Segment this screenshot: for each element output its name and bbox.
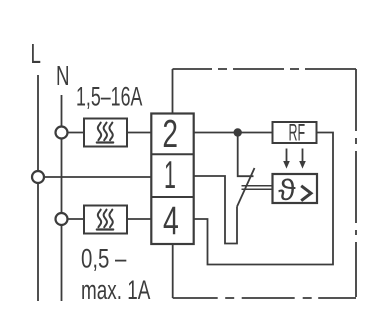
thermostat greater-than symbol [301,186,311,201]
enclosure dash-dot top edge [173,68,357,70]
node L label [31,38,41,68]
wire terminal 1 to switch pole [194,176,237,244]
RF module U1 box [273,122,317,143]
wire terminal 2 to RF [194,132,273,134]
wire N to load E1 [62,132,85,134]
enclosure dash-dot bottom edge [173,297,356,299]
switch blade [237,168,255,207]
wire L rail [37,75,39,301]
thermostat theta label [278,173,296,207]
terminal circle on N (top) [56,127,68,139]
svg-text:0,5 –: 0,5 – [81,244,127,274]
junction dot [234,128,242,136]
terminal 4 label [163,199,179,243]
terminal 1 label [164,153,176,196]
wire L to terminal 1 [38,176,151,178]
switch fixed contact from junction [238,133,254,177]
load E2 box [84,206,127,234]
node N label [56,60,70,90]
wire terminal 2 top stub to enclosure [172,69,174,114]
wire RF to terminal 4 (right loop) [194,133,333,265]
svg-text:RF: RF [289,120,306,146]
RF control arrow 1 [286,149,288,162]
wire E2 to terminal 4 [127,218,151,220]
load E1 heating symbol [97,123,113,143]
RF label [289,120,306,146]
svg-text:L: L [31,38,41,68]
svg-text:4: 4 [163,199,179,243]
wire N to load E2 [62,218,85,220]
label 0,5 - [81,244,127,274]
terminal divider 2/1 [151,153,193,155]
terminal block [151,114,193,245]
svg-text:ϑ: ϑ [278,173,296,207]
svg-text:1: 1 [164,153,176,196]
load E2 heating symbol [97,210,113,230]
svg-text:max. 1A: max. 1A [81,275,151,305]
wire N rail [61,95,63,301]
terminal 2 label [162,113,178,157]
load E1 box [84,119,127,147]
enclosure dash-dot right edge [355,69,357,298]
svg-text:1,5–16A: 1,5–16A [76,81,143,112]
terminal circle on L (middle) [32,171,44,183]
label max. 1A [81,275,151,305]
mechanical linkage to switch [242,185,273,187]
terminal divider 1/4 [151,196,193,198]
label 1,5-16A [76,81,143,112]
RF control arrow 2 [302,149,304,162]
thermostat box [273,174,318,203]
wire E1 to terminal 2 [127,132,151,134]
svg-text:N: N [56,60,70,90]
wire terminal 4 bottom stub to enclosure [172,244,174,298]
svg-text:2: 2 [162,113,178,157]
terminal circle on N (bottom) [56,213,68,225]
